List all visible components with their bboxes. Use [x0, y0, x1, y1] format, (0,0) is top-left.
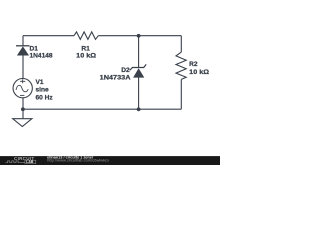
svg-text:D2: D2	[121, 67, 130, 74]
svg-text:sine: sine	[36, 87, 50, 94]
svg-text:R1: R1	[81, 45, 90, 52]
svg-text:60 Hz: 60 Hz	[36, 94, 54, 101]
svg-text:LAB: LAB	[26, 160, 34, 164]
svg-text:1N4148: 1N4148	[30, 53, 53, 60]
svg-text:V1: V1	[36, 79, 44, 86]
svg-text:R2: R2	[189, 61, 198, 68]
svg-text:http://www.circuitlab.com/c6wl: http://www.circuitlab.com/c6wlwkcx	[47, 159, 109, 163]
svg-text:1N4733A: 1N4733A	[100, 75, 131, 82]
svg-text:10 kΩ: 10 kΩ	[189, 69, 210, 76]
svg-text:D1: D1	[30, 45, 39, 52]
svg-text:10 kΩ: 10 kΩ	[76, 53, 97, 60]
